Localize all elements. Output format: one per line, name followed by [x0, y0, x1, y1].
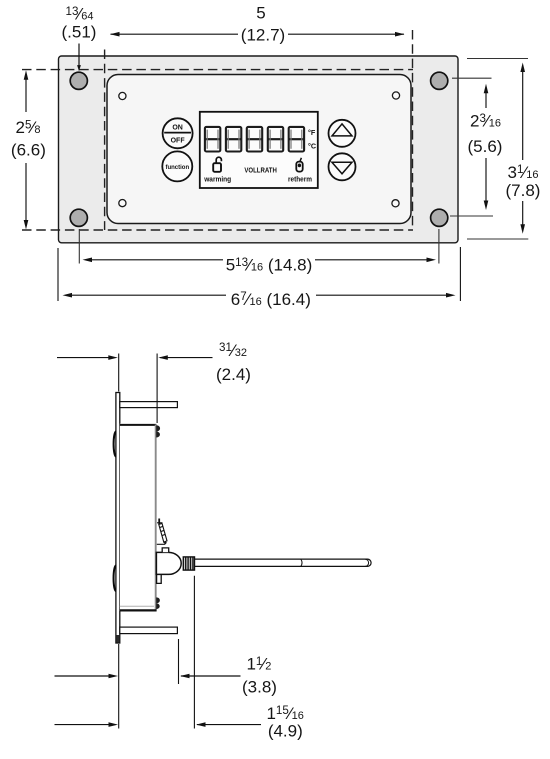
- warming unlock icon: [213, 157, 221, 172]
- svg-text:VOLLRATH: VOLLRATH: [244, 166, 277, 175]
- dim 31/32 line with arrows: [57, 355, 213, 360]
- svg-text:°F: °F: [308, 128, 316, 137]
- controller body (side): [120, 424, 157, 611]
- panel edge ext line bottom-left: [57, 248, 59, 301]
- hole centerline ext right-top: [452, 77, 492, 79]
- panel edge ext line bottom-right: [459, 247, 461, 301]
- seven-segment digit 2: [226, 127, 241, 152]
- down arrow button: [329, 153, 356, 180]
- svg-text:function: function: [165, 165, 189, 171]
- seven-segment digit 5: [289, 127, 304, 152]
- dim 2-5/8 line with arrows: [24, 70, 29, 229]
- ON/OFF button: [163, 118, 193, 148]
- svg-text:retherm: retherm: [288, 174, 312, 183]
- plate bottom foot: [116, 635, 119, 643]
- body clip bottom-right: [156, 597, 160, 609]
- cutout dashed bottom line: [22, 229, 413, 231]
- cutout dashed right line: [412, 30, 414, 230]
- svg-text:(5.6): (5.6): [468, 137, 503, 156]
- probe shaft: [195, 559, 372, 566]
- svg-text:ON: ON: [172, 124, 183, 131]
- svg-text:(12.7): (12.7): [241, 25, 285, 44]
- mounting hole bottom-left: [70, 209, 87, 226]
- panel bottom edge ext line: [467, 238, 528, 240]
- plate face ext line upper: [118, 354, 120, 392]
- dim 13/64 leader arrow: [77, 44, 81, 72]
- svg-text:5: 5: [256, 4, 265, 23]
- svg-text:OFF: OFF: [171, 138, 186, 145]
- dim 3-1/16 line with arrows: [520, 63, 525, 234]
- tab end ext line: [178, 639, 180, 684]
- top flange tab: [120, 402, 178, 408]
- bezel screw top-right: [392, 92, 399, 99]
- dim 1-1/2 line with arrows: [55, 674, 241, 679]
- mounting hole top-right: [431, 72, 448, 89]
- panel faceplate: [59, 56, 459, 243]
- hole centerline ext right-bottom: [450, 215, 493, 217]
- svg-text:warming: warming: [203, 174, 231, 183]
- probe connector boss: [156, 552, 181, 574]
- seven-segment digit 1: [205, 127, 220, 152]
- seven-segment digit 4: [268, 127, 283, 152]
- dim 5-13/16 line with arrows: [83, 258, 437, 263]
- dim 2-3/16 line with arrows: [484, 84, 489, 210]
- spring clip upper (plate back): [114, 432, 116, 457]
- probe thread knurl: [183, 557, 194, 570]
- dim 6-7/16 line with arrows: [63, 293, 456, 298]
- retherm pot icon: [296, 158, 302, 172]
- svg-text:(3.8): (3.8): [242, 678, 277, 697]
- function button: [162, 151, 192, 181]
- panel top edge ext line: [467, 58, 528, 60]
- spring clip lower (plate back): [114, 566, 116, 592]
- svg-text:(6.6): (6.6): [11, 141, 46, 160]
- body rear ext line: [156, 354, 158, 424]
- svg-text:(2.4): (2.4): [216, 365, 251, 384]
- hole ext line bottom-right: [438, 229, 440, 264]
- control bezel: [107, 75, 411, 224]
- bezel screw bottom-right: [392, 200, 399, 207]
- display window: [200, 112, 318, 188]
- dim 5 line with arrows: [110, 32, 405, 37]
- up arrow button: [329, 120, 356, 147]
- probe start ext line: [193, 576, 195, 729]
- bezel screw bottom-left: [119, 200, 126, 207]
- dim 1-15/16 line with arrows: [55, 722, 262, 727]
- svg-text:(4.9): (4.9): [268, 722, 303, 741]
- mounting plate (side): [116, 393, 120, 644]
- bezel screw top-left: [119, 92, 126, 99]
- svg-text:°C: °C: [308, 142, 316, 151]
- svg-text:(7.8): (7.8): [506, 181, 541, 200]
- bottom flange tab: [120, 627, 178, 634]
- body clip top-right: [156, 425, 160, 437]
- svg-text:(.51): (.51): [62, 23, 97, 42]
- cutout dashed left line: [104, 50, 106, 231]
- connector bottom notch: [157, 575, 162, 584]
- mounting hole top-left: [70, 72, 87, 89]
- plate face ext line lower: [118, 644, 120, 729]
- connector top notch: [162, 548, 169, 552]
- hole ext line bottom-left: [78, 229, 80, 264]
- mounting hole bottom-right: [431, 209, 448, 226]
- cutout dashed top line: [22, 69, 413, 71]
- latch lever (hatched): [157, 519, 167, 546]
- seven-segment digit 3: [247, 127, 262, 152]
